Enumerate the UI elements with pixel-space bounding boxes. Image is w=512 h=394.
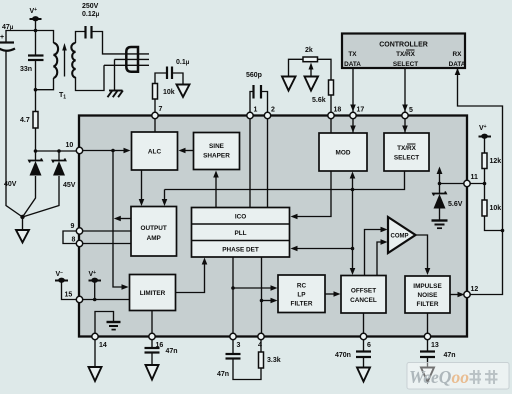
node E (20, 215, 24, 219)
node D (57, 149, 61, 153)
transformer T1 primary coil (71, 43, 75, 78)
wire pin14 to ground (94, 337, 96, 368)
SINE SHAPER box (194, 133, 240, 170)
wire stack to pin4 (261, 257, 263, 337)
ground triangle left (16, 230, 29, 243)
zener diode 5.6V (433, 192, 446, 196)
wire LIMITER to PHASE DET (176, 263, 205, 293)
LIMITER box (130, 275, 176, 311)
TX/RX SELECT box (384, 133, 429, 171)
svg-text:MOD: MOD (336, 150, 351, 157)
capacitor 33n (28, 54, 44, 56)
capacitor 47n (pin13) (427, 337, 429, 368)
svg-text:IMPULSE: IMPULSE (413, 283, 442, 290)
wiper arrow (310, 66, 312, 77)
wire node to 33n (35, 31, 37, 56)
center rail node I (351, 188, 355, 192)
ICO PLL PHASE DET stack (192, 208, 290, 258)
OUTPUT AMP box (131, 207, 177, 257)
svg-text:11: 11 (471, 174, 479, 181)
pin 15 (76, 296, 82, 302)
wire pin5 to TX/RX SELECT (404, 116, 406, 134)
wire pin15 to LIMITER (80, 299, 130, 301)
pin 7 (152, 112, 158, 118)
pin 2 (264, 112, 270, 118)
wire 33n to node B (35, 60, 37, 90)
wire 2k left to ground (289, 59, 304, 76)
capacitor 560p (250, 92, 268, 116)
svg-text:V+: V+ (30, 7, 38, 15)
svg-text:18: 18 (334, 107, 342, 114)
resistor 3.3k (pin4) (260, 337, 262, 353)
controller box (342, 34, 465, 69)
wire 47u to ground node (6, 51, 23, 218)
wire ALC to OUTPUT AMP (141, 170, 143, 201)
svg-text:WeeQoo: WeeQoo (409, 367, 469, 387)
wire node B to coil (36, 78, 54, 90)
pin 18 (328, 112, 334, 118)
capacitor 470n (pin6) (363, 337, 365, 368)
svg-text:RX: RX (453, 51, 463, 58)
wire V- to pin 15 (62, 281, 80, 300)
pin 9 (76, 228, 82, 234)
svg-text:5.6k: 5.6k (312, 97, 326, 104)
svg-text:14: 14 (99, 342, 107, 349)
wire pin14 to internal ground (95, 312, 114, 337)
pin 4 (258, 333, 264, 339)
svg-text:ALC: ALC (148, 149, 162, 156)
svg-text:T1: T1 (59, 92, 66, 101)
ground triangle (0.1u) (177, 85, 190, 98)
wire COMP output to IMPULSE (416, 235, 428, 270)
capacitor 47n (pin16) (151, 337, 153, 366)
wire zener to ground (439, 209, 441, 220)
svg-text:560p: 560p (246, 72, 262, 79)
MOD box (319, 133, 367, 171)
RC LP FILTER box (278, 275, 325, 313)
capacitor 47n (pin3) (233, 337, 261, 380)
ground triangle (2k left) (282, 77, 296, 91)
svg-text:V+: V+ (479, 124, 487, 132)
node M (231, 286, 235, 290)
ground triangle (wiper) (305, 77, 319, 91)
capacitor 0.1u (166, 67, 168, 80)
plug P1 (126, 47, 138, 72)
wire V+ to node (35, 19, 37, 31)
svg-text:5: 5 (409, 107, 413, 114)
svg-text:47n: 47n (166, 348, 178, 355)
svg-text:47n: 47n (217, 371, 229, 378)
wire IMPULSE to pin12 (450, 294, 460, 296)
wire pin 11 (467, 183, 485, 185)
svg-text:4.7: 4.7 (20, 117, 30, 124)
ground triangle (pin6) (357, 368, 370, 382)
comparator COMP (388, 217, 416, 253)
svg-text:NOISE: NOISE (418, 292, 439, 299)
ground triangle (pin13) (421, 368, 434, 383)
node J (351, 247, 355, 251)
wire top-left bus (6, 31, 54, 44)
svg-text:8: 8 (72, 237, 76, 244)
svg-text:ICO: ICO (235, 214, 246, 221)
svg-text:45V: 45V (63, 182, 76, 189)
svg-text:LP: LP (297, 292, 306, 299)
svg-text:AMP: AMP (147, 235, 162, 242)
svg-text:OUTPUT: OUTPUT (141, 225, 167, 232)
pin 14 (92, 333, 98, 339)
wire cap to plug top prong (92, 32, 127, 54)
svg-text:V−: V− (56, 270, 64, 278)
feedback rail (113, 151, 124, 288)
svg-text:SELECT: SELECT (393, 61, 418, 68)
ground bars (zener) (432, 221, 448, 229)
wire 0.1u to ground (172, 73, 183, 85)
svg-text:DATA: DATA (449, 61, 466, 68)
wire pin8 to OUTPUT AMP (80, 243, 132, 245)
wire TX DATA to pin 17 (352, 68, 354, 116)
wire bus down to OUTPUT AMP (164, 190, 166, 202)
resistor 5.6k (318, 59, 332, 115)
svg-text:12k: 12k (490, 158, 502, 165)
svg-text:16: 16 (156, 342, 164, 349)
svg-text:470n: 470n (335, 352, 351, 359)
svg-text:OFFSET: OFFSET (351, 288, 376, 295)
svg-text:0.1μ: 0.1μ (176, 59, 190, 66)
svg-text:PLL: PLL (234, 230, 246, 237)
wire RC LP to OFFSET (325, 293, 336, 295)
svg-text:COMP: COMP (391, 234, 409, 240)
svg-text:47μ: 47μ (2, 24, 14, 31)
svg-text:CANCEL: CANCEL (350, 297, 377, 304)
svg-text:LIMITER: LIMITER (140, 290, 166, 297)
IC body U1 (79, 116, 467, 337)
wire TX/RX SELECT to pin 5 (404, 68, 406, 116)
wire pin18 to MOD (330, 116, 332, 134)
svg-text:47n: 47n (444, 352, 456, 359)
wire pin17 to MOD (352, 116, 354, 134)
wire rail to PHASE DET (295, 248, 353, 250)
svg-text:1: 1 (254, 107, 258, 114)
capacitor 47u (0, 41, 14, 43)
wire RX DATA from pin 12 (458, 68, 503, 295)
zener diode 40V (23, 151, 36, 217)
wire pin7 to ALC (154, 116, 156, 133)
capacitor 0.12u 250V (84, 26, 86, 39)
svg-text:2k: 2k (305, 47, 313, 54)
zener rail arrow (439, 172, 441, 193)
pin 11 (464, 180, 470, 186)
node H (feedback rail top) (111, 149, 115, 153)
svg-text:17: 17 (357, 107, 365, 114)
wire OUTPUT AMP output to rail (119, 218, 131, 220)
svg-text:33n: 33n (20, 66, 32, 73)
pin 10 (76, 147, 82, 153)
svg-text:SINE: SINE (209, 143, 225, 150)
wire LIMITER to pin16 (151, 311, 153, 337)
transformer arrow (64, 48, 66, 77)
pin 6 (360, 333, 366, 339)
svg-text:40V: 40V (4, 181, 17, 188)
wire MOD to ICO (295, 171, 331, 217)
wire node M to RC LP (233, 287, 273, 289)
svg-text:250V: 250V (82, 3, 99, 10)
wire primary loop (76, 32, 86, 44)
potentiometer 2k (303, 57, 318, 62)
wire pin10 to ALC (80, 150, 127, 152)
wire OFFSET to COMP + input (365, 230, 383, 276)
svg-text:6: 6 (367, 342, 371, 349)
wire node C to pin 10 (36, 150, 80, 152)
center rail (352, 176, 354, 270)
svg-text:PHASE DET: PHASE DET (222, 247, 259, 254)
svg-text:4: 4 (258, 342, 262, 349)
pin 5 (402, 112, 408, 118)
pin 12 (464, 291, 470, 297)
node top-left (34, 29, 38, 33)
svg-text:2: 2 (271, 107, 275, 114)
earth ground (hatched) (108, 91, 123, 98)
bus wire y=189.5 (165, 171, 405, 190)
ground triangle (pin16) (146, 365, 159, 380)
resistor 12k (484, 137, 486, 184)
node F (pin 11 rail) (483, 182, 487, 186)
svg-text:SHAPER: SHAPER (203, 153, 230, 160)
wire node N to RC LP (262, 300, 273, 302)
ground triangle (pin14) (89, 367, 102, 381)
plug prongs (127, 53, 150, 55)
wire stack to pin3 (232, 257, 234, 337)
resistor 10k (right) (485, 184, 503, 231)
wire middle prong to earth (114, 59, 116, 90)
svg-text:9: 9 (71, 223, 75, 230)
svg-text:10: 10 (66, 142, 74, 149)
svg-text:10k: 10k (163, 89, 175, 96)
pin 3 (230, 333, 236, 339)
svg-text:13: 13 (431, 342, 439, 349)
ALC box (132, 132, 178, 170)
svg-text:FILTER: FILTER (291, 301, 313, 308)
svg-text:0.12μ: 0.12μ (82, 11, 100, 18)
node K (438, 182, 442, 186)
resistor 4.7 (35, 90, 37, 151)
wire SINE SHAPER to ALC (183, 150, 194, 152)
external loop pins 9-8 (63, 231, 80, 244)
pin 17 (350, 112, 356, 118)
svg-text:TX: TX (348, 51, 357, 58)
svg-text:TX/RX: TX/RX (396, 51, 416, 58)
ground bars (internal) (107, 322, 121, 330)
watermark (407, 363, 509, 390)
wire IMPULSE to pin13 (427, 313, 429, 337)
wire OFFSET to COMP - input (377, 242, 383, 276)
node L (V+ int) (93, 298, 97, 302)
svg-text:FILTER: FILTER (417, 301, 439, 308)
pin 8 (76, 240, 82, 246)
svg-text:DATA: DATA (344, 61, 361, 68)
node C (34, 149, 38, 153)
OFFSET CANCEL box (341, 276, 386, 314)
svg-text:TX/RX: TX/RX (397, 145, 417, 152)
node B (34, 88, 38, 92)
IMPULSE NOISE FILTER box (405, 276, 450, 313)
svg-text:15: 15 (65, 292, 73, 299)
svg-text:10k: 10k (490, 205, 502, 212)
svg-text:SELECT: SELECT (394, 155, 419, 162)
svg-text:CONTROLLER: CONTROLLER (379, 42, 428, 49)
resistor 10k (pin7) (155, 73, 167, 116)
pin 16 (149, 333, 155, 339)
wire node K to pin 11 (440, 183, 468, 185)
wire pin1 to stack (249, 116, 251, 208)
svg-text:12: 12 (471, 286, 479, 293)
svg-text:RC: RC (297, 283, 307, 290)
wire ICO to SINE SHAPER (215, 175, 217, 208)
wire pin2 to stack (267, 116, 269, 208)
node N (260, 299, 264, 303)
svg-text:3: 3 (237, 342, 241, 349)
pin 13 (424, 333, 430, 339)
zener diode 45V (23, 151, 60, 217)
transformer T1 secondary coil (54, 43, 59, 78)
svg-text:5.6V: 5.6V (448, 201, 463, 208)
wire pin9 to OUTPUT AMP (80, 230, 132, 232)
svg-text:3.3k: 3.3k (267, 357, 281, 364)
svg-text:7: 7 (159, 106, 163, 113)
node G (501, 229, 505, 233)
wire OFFSET to pin6 (363, 313, 365, 337)
pin 1 (247, 112, 253, 118)
svg-text:+: + (0, 34, 4, 41)
wire node E to ground (22, 217, 24, 230)
